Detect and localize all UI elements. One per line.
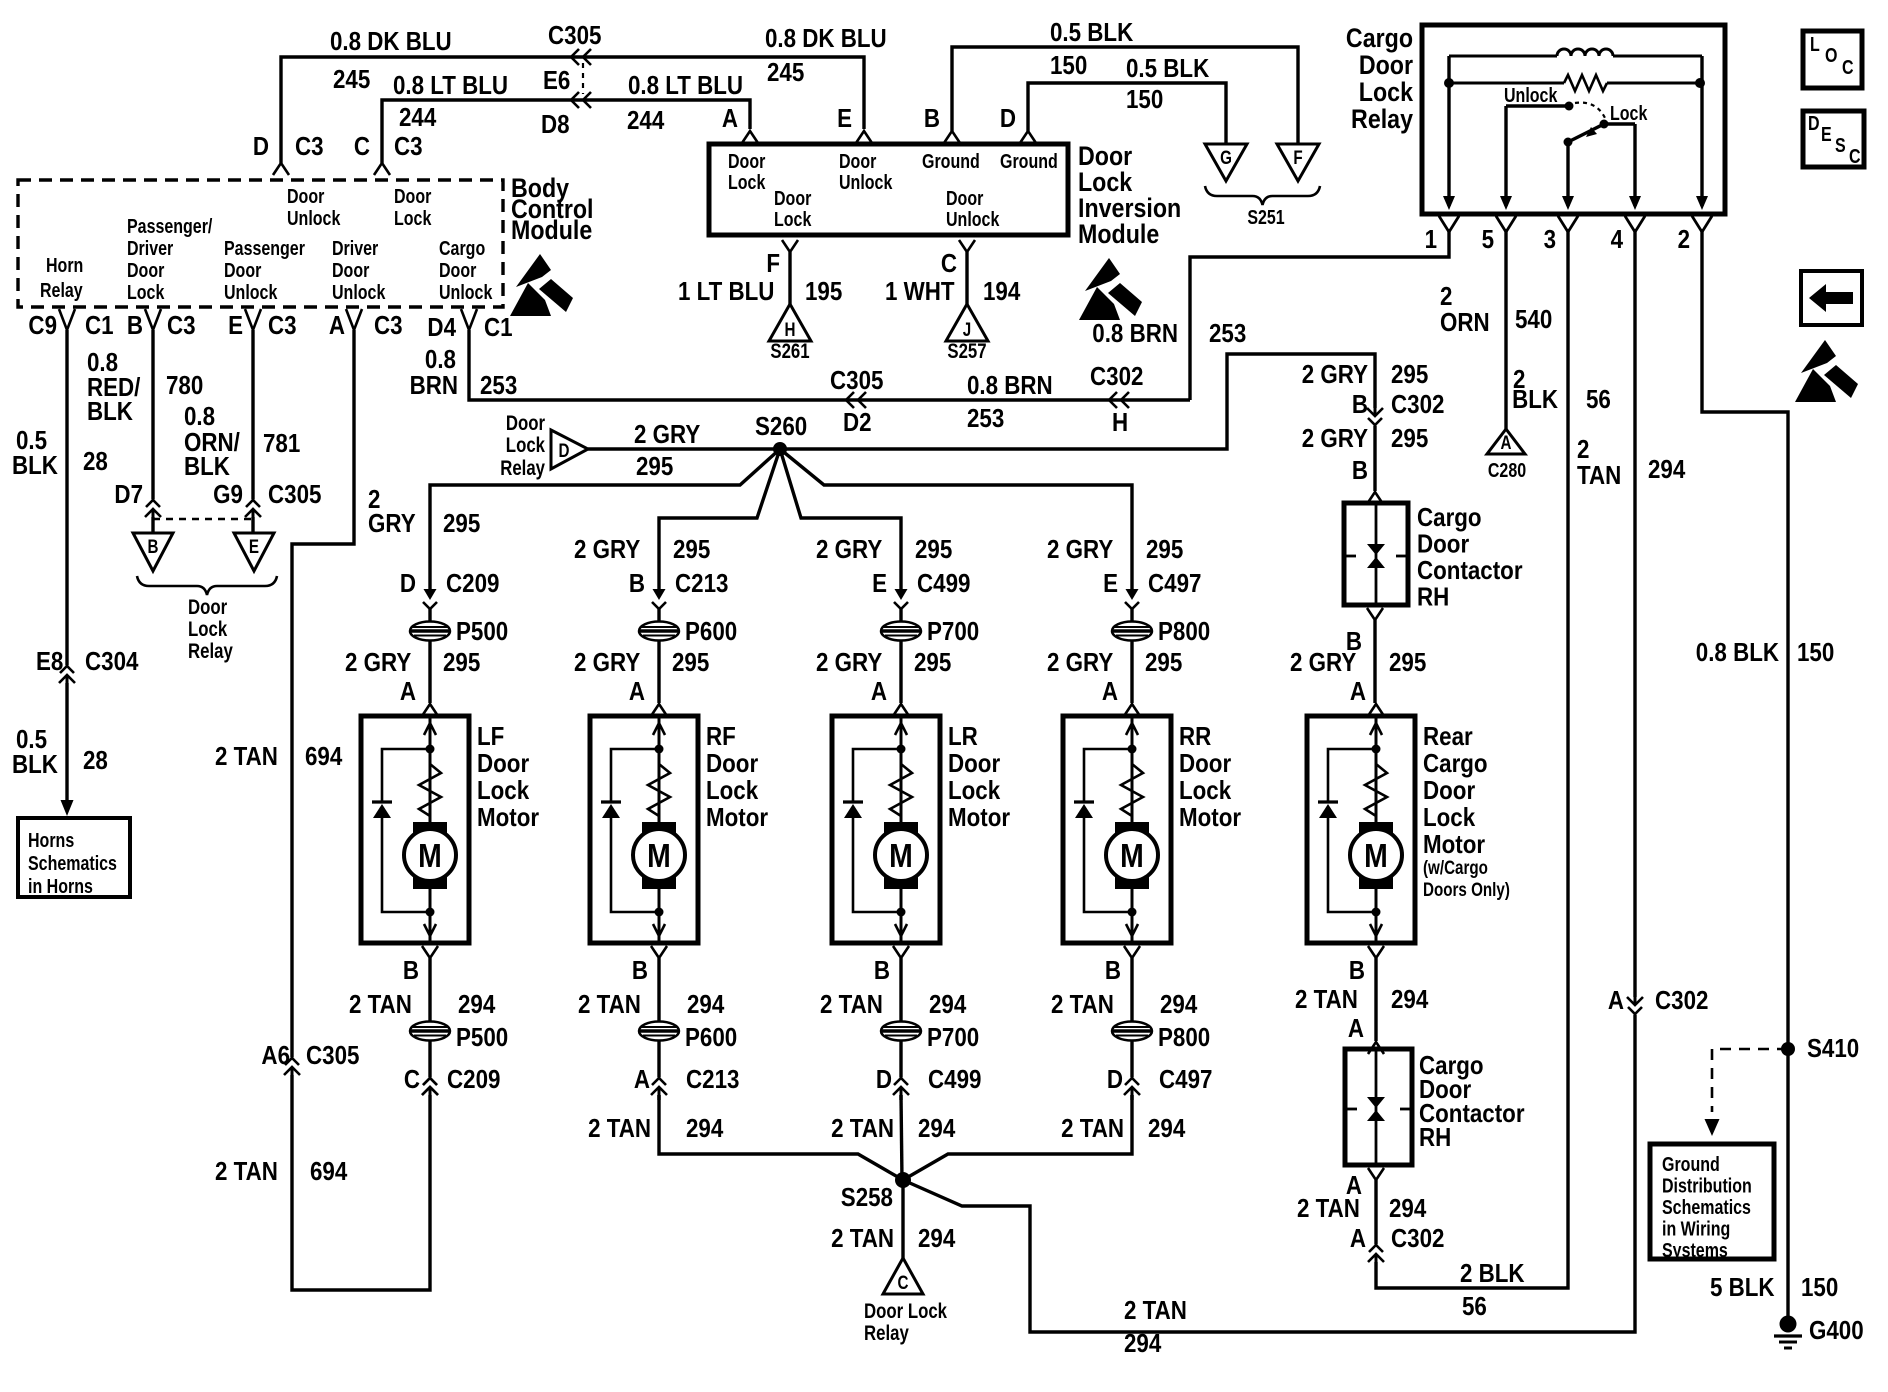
svg-text:Door: Door [477, 749, 530, 778]
svg-text:294: 294 [1648, 455, 1686, 484]
svg-text:295: 295 [1146, 535, 1183, 564]
svg-text:D: D [1000, 104, 1016, 133]
svg-text:E: E [872, 569, 887, 598]
svg-text:C302: C302 [1391, 390, 1444, 419]
svg-text:Unlock: Unlock [839, 171, 893, 193]
svg-text:2 TAN: 2 TAN [820, 990, 883, 1019]
svg-text:E6: E6 [543, 66, 570, 95]
svg-text:A: A [1350, 1224, 1366, 1253]
svg-text:294: 294 [918, 1114, 956, 1143]
svg-text:2 TAN: 2 TAN [588, 1114, 651, 1143]
svg-text:Ground: Ground [1000, 150, 1058, 172]
svg-text:GRY: GRY [368, 509, 416, 538]
svg-text:2 TAN: 2 TAN [578, 990, 641, 1019]
svg-text:244: 244 [627, 106, 665, 135]
svg-text:294: 294 [686, 1114, 724, 1143]
svg-text:0.8 BRN: 0.8 BRN [967, 371, 1053, 400]
svg-text:195: 195 [805, 277, 842, 306]
svg-text:4: 4 [1611, 225, 1624, 254]
svg-text:1 WHT: 1 WHT [885, 277, 955, 306]
svg-text:S: S [1835, 134, 1846, 156]
svg-text:S410: S410 [1807, 1034, 1859, 1063]
svg-text:BLK: BLK [12, 750, 58, 779]
svg-text:C302: C302 [1391, 1224, 1444, 1253]
svg-text:295: 295 [1391, 360, 1428, 389]
svg-text:Door: Door [287, 185, 324, 207]
svg-text:C213: C213 [686, 1065, 739, 1094]
svg-text:G9: G9 [213, 480, 243, 509]
svg-text:M: M [647, 837, 671, 875]
svg-text:D2: D2 [843, 408, 872, 437]
svg-text:F: F [1293, 146, 1302, 168]
svg-text:B: B [629, 569, 645, 598]
svg-text:781: 781 [263, 429, 300, 458]
svg-text:E: E [249, 535, 259, 557]
svg-text:295: 295 [673, 535, 710, 564]
svg-text:150: 150 [1797, 638, 1834, 667]
svg-text:150: 150 [1050, 51, 1087, 80]
svg-text:2 TAN: 2 TAN [215, 1157, 278, 1186]
svg-text:C497: C497 [1148, 569, 1201, 598]
svg-text:Relay: Relay [40, 279, 83, 301]
svg-text:294: 294 [929, 990, 967, 1019]
svg-text:A: A [1608, 986, 1624, 1015]
svg-text:P600: P600 [685, 1023, 737, 1052]
svg-text:2: 2 [1577, 435, 1589, 464]
svg-text:D: D [1808, 112, 1820, 134]
svg-text:Door: Door [1179, 749, 1232, 778]
svg-text:C302: C302 [1090, 362, 1143, 391]
svg-text:295: 295 [636, 452, 673, 481]
svg-text:Cargo: Cargo [439, 237, 485, 259]
svg-text:E: E [1821, 123, 1832, 145]
svg-text:BLK: BLK [184, 452, 230, 481]
svg-text:H: H [1112, 408, 1128, 437]
svg-text:P500: P500 [456, 617, 508, 646]
svg-text:295: 295 [1145, 648, 1182, 677]
svg-text:D: D [253, 132, 269, 161]
svg-text:C1: C1 [484, 313, 513, 342]
svg-text:Horns: Horns [28, 829, 74, 851]
svg-text:253: 253 [480, 371, 517, 400]
svg-text:28: 28 [83, 746, 108, 775]
svg-text:295: 295 [672, 648, 709, 677]
svg-text:D: D [876, 1065, 892, 1094]
svg-text:C305: C305 [548, 21, 601, 50]
svg-text:Schematics: Schematics [28, 852, 117, 874]
svg-text:0.8 LT BLU: 0.8 LT BLU [628, 71, 743, 100]
svg-text:Passenger: Passenger [224, 237, 305, 259]
svg-text:294: 294 [1160, 990, 1198, 1019]
svg-text:A: A [871, 677, 887, 706]
svg-text:C: C [941, 249, 957, 278]
svg-text:2 TAN: 2 TAN [1297, 1194, 1360, 1223]
svg-text:2 GRY: 2 GRY [1302, 360, 1368, 389]
svg-text:245: 245 [333, 65, 370, 94]
svg-text:Unlock: Unlock [287, 207, 341, 229]
svg-text:Relay: Relay [188, 640, 233, 663]
svg-text:2 TAN: 2 TAN [1061, 1114, 1124, 1143]
svg-text:295: 295 [1391, 424, 1428, 453]
svg-text:253: 253 [967, 404, 1004, 433]
svg-text:P800: P800 [1158, 617, 1210, 646]
svg-text:Lock: Lock [1423, 803, 1476, 832]
svg-text:C305: C305 [306, 1041, 359, 1070]
svg-text:S258: S258 [841, 1183, 893, 1212]
svg-text:294: 294 [1124, 1329, 1162, 1358]
svg-text:C: C [898, 1271, 909, 1293]
svg-text:P700: P700 [927, 1023, 979, 1052]
svg-text:Motor: Motor [1179, 803, 1242, 832]
svg-text:Unlock: Unlock [1504, 84, 1558, 106]
svg-text:Lock: Lock [706, 776, 759, 805]
svg-text:A: A [1501, 431, 1512, 453]
svg-text:BLK: BLK [12, 451, 58, 480]
svg-text:2 TAN: 2 TAN [831, 1114, 894, 1143]
svg-text:Systems: Systems [1662, 1239, 1728, 1261]
svg-text:M: M [889, 837, 913, 875]
svg-text:2 GRY: 2 GRY [1047, 535, 1113, 564]
svg-text:C209: C209 [447, 1065, 500, 1094]
svg-text:A: A [1348, 1014, 1364, 1043]
svg-text:RF: RF [706, 722, 736, 751]
svg-text:M: M [418, 837, 442, 875]
svg-text:Relay: Relay [1351, 104, 1413, 134]
svg-text:S257: S257 [947, 340, 986, 363]
svg-text:2 GRY: 2 GRY [634, 420, 700, 449]
svg-text:Lock: Lock [774, 208, 812, 230]
svg-text:Door: Door [728, 150, 765, 172]
svg-text:Lock: Lock [188, 618, 228, 641]
svg-text:B: B [148, 535, 159, 557]
svg-text:Unlock: Unlock [946, 208, 1000, 230]
svg-text:B: B [1352, 390, 1368, 419]
svg-text:1 LT BLU: 1 LT BLU [678, 277, 774, 306]
svg-text:in Horns: in Horns [28, 875, 93, 897]
svg-text:C280: C280 [1488, 459, 1526, 481]
svg-text:E8: E8 [36, 647, 63, 676]
svg-text:Door: Door [839, 150, 876, 172]
svg-text:Module: Module [511, 215, 592, 245]
svg-text:Horn: Horn [46, 254, 83, 276]
svg-text:Lock: Lock [728, 171, 766, 193]
svg-text:2 GRY: 2 GRY [574, 535, 640, 564]
svg-text:in Wiring: in Wiring [1662, 1218, 1730, 1240]
svg-text:Door: Door [188, 596, 228, 619]
svg-text:C499: C499 [917, 569, 970, 598]
svg-text:2: 2 [1678, 225, 1690, 254]
svg-text:C213: C213 [675, 569, 728, 598]
svg-text:B: B [1105, 956, 1121, 985]
svg-text:253: 253 [1209, 319, 1246, 348]
svg-text:194: 194 [983, 277, 1021, 306]
svg-text:C9: C9 [28, 311, 57, 340]
svg-text:0.8: 0.8 [184, 402, 215, 431]
svg-text:0.8: 0.8 [425, 345, 456, 374]
svg-text:Motor: Motor [477, 803, 540, 832]
svg-text:Passenger/: Passenger/ [127, 215, 212, 237]
svg-text:Door: Door [1359, 50, 1413, 80]
svg-text:C497: C497 [1159, 1065, 1212, 1094]
svg-text:2 TAN: 2 TAN [349, 990, 412, 1019]
svg-text:694: 694 [305, 742, 343, 771]
svg-text:Door: Door [1423, 776, 1476, 805]
svg-text:2 GRY: 2 GRY [816, 535, 882, 564]
svg-text:A: A [1350, 677, 1366, 706]
svg-text:Distribution: Distribution [1662, 1175, 1752, 1197]
svg-text:2 TAN: 2 TAN [1124, 1296, 1187, 1325]
svg-text:P800: P800 [1158, 1023, 1210, 1052]
svg-text:Relay: Relay [500, 457, 545, 480]
svg-text:294: 294 [687, 990, 725, 1019]
svg-text:C: C [1849, 145, 1861, 167]
svg-text:C: C [354, 132, 370, 161]
svg-text:Lock: Lock [127, 281, 165, 303]
svg-text:Door: Door [439, 259, 476, 281]
svg-text:TAN: TAN [1577, 461, 1621, 490]
svg-text:G: G [1220, 146, 1232, 168]
svg-text:D: D [1107, 1065, 1123, 1094]
svg-text:Lock: Lock [477, 776, 530, 805]
svg-text:294: 294 [1389, 1194, 1427, 1223]
svg-text:2 TAN: 2 TAN [215, 742, 278, 771]
svg-text:Unlock: Unlock [439, 281, 493, 303]
svg-text:C209: C209 [446, 569, 499, 598]
svg-text:28: 28 [83, 447, 108, 476]
svg-text:E: E [1103, 569, 1118, 598]
svg-text:B: B [1349, 956, 1365, 985]
svg-text:C305: C305 [830, 366, 883, 395]
svg-text:RH: RH [1419, 1123, 1451, 1152]
svg-text:O: O [1825, 44, 1837, 66]
svg-text:C3: C3 [394, 132, 423, 161]
svg-text:LR: LR [948, 722, 978, 751]
svg-text:Motor: Motor [1423, 830, 1486, 859]
svg-text:295: 295 [1389, 648, 1426, 677]
svg-text:2 TAN: 2 TAN [1295, 985, 1358, 1014]
svg-text:694: 694 [310, 1157, 348, 1186]
svg-text:Door: Door [332, 259, 369, 281]
svg-text:Door: Door [948, 749, 1001, 778]
svg-text:0.8 BRN: 0.8 BRN [1092, 319, 1178, 348]
svg-text:Lock: Lock [506, 434, 546, 457]
svg-text:J: J [963, 318, 971, 340]
svg-text:2 BLK: 2 BLK [1460, 1259, 1525, 1288]
svg-text:2 GRY: 2 GRY [1290, 648, 1356, 677]
svg-text:A: A [329, 311, 345, 340]
svg-text:B: B [1352, 456, 1368, 485]
svg-text:RH: RH [1417, 583, 1449, 612]
svg-text:Module: Module [1078, 219, 1159, 249]
svg-text:E: E [837, 104, 852, 133]
svg-text:D8: D8 [541, 110, 570, 139]
svg-text:P500: P500 [456, 1023, 508, 1052]
svg-text:Unlock: Unlock [224, 281, 278, 303]
svg-text:D: D [559, 439, 570, 461]
svg-text:P700: P700 [927, 617, 979, 646]
svg-text:A6: A6 [261, 1041, 290, 1070]
svg-text:C1: C1 [85, 311, 114, 340]
svg-text:3: 3 [1544, 225, 1556, 254]
svg-text:Cargo: Cargo [1346, 23, 1413, 53]
svg-text:BLK: BLK [1512, 385, 1558, 414]
svg-text:LF: LF [477, 722, 504, 751]
svg-text:2 GRY: 2 GRY [574, 648, 640, 677]
svg-text:B: B [127, 311, 143, 340]
svg-text:295: 295 [443, 509, 480, 538]
svg-text:Door: Door [774, 187, 811, 209]
svg-text:Relay: Relay [864, 1322, 909, 1345]
svg-text:Lock: Lock [1610, 102, 1648, 124]
svg-text:L: L [1810, 33, 1820, 55]
svg-text:A: A [634, 1065, 650, 1094]
svg-text:Ground: Ground [1662, 1153, 1720, 1175]
svg-text:294: 294 [918, 1224, 956, 1253]
svg-text:Doors Only): Doors Only) [1423, 878, 1510, 900]
svg-text:C3: C3 [167, 311, 196, 340]
svg-text:H: H [785, 318, 796, 340]
svg-text:BLK: BLK [87, 397, 133, 426]
svg-text:294: 294 [458, 990, 496, 1019]
svg-text:Motor: Motor [706, 803, 769, 832]
svg-text:5: 5 [1482, 225, 1494, 254]
svg-text:Cargo: Cargo [1423, 749, 1488, 778]
svg-text:ORN: ORN [1440, 308, 1490, 337]
svg-text:295: 295 [443, 648, 480, 677]
svg-text:56: 56 [1586, 385, 1611, 414]
svg-text:P600: P600 [685, 617, 737, 646]
svg-text:Lock: Lock [948, 776, 1001, 805]
svg-text:RR: RR [1179, 722, 1211, 751]
svg-text:0.8 LT BLU: 0.8 LT BLU [393, 71, 508, 100]
svg-text:Door: Door [1417, 530, 1470, 559]
svg-text:0.8 DK BLU: 0.8 DK BLU [330, 27, 452, 56]
svg-text:Door Lock: Door Lock [864, 1300, 947, 1323]
svg-text:Door: Door [506, 412, 546, 435]
svg-text:BRN: BRN [410, 371, 458, 400]
svg-text:A: A [1102, 677, 1118, 706]
svg-text:Door: Door [224, 259, 261, 281]
svg-text:M: M [1364, 837, 1388, 875]
svg-text:Ground: Ground [922, 150, 980, 172]
svg-text:C305: C305 [268, 480, 321, 509]
svg-text:294: 294 [1148, 1114, 1186, 1143]
svg-text:Lock: Lock [394, 207, 432, 229]
svg-text:295: 295 [914, 648, 951, 677]
svg-text:Unlock: Unlock [332, 281, 386, 303]
svg-text:G400: G400 [1809, 1316, 1864, 1345]
svg-text:S251: S251 [1247, 206, 1284, 228]
svg-text:294: 294 [1391, 985, 1429, 1014]
svg-text:F: F [766, 249, 780, 278]
svg-text:A: A [400, 677, 416, 706]
svg-text:2 GRY: 2 GRY [816, 648, 882, 677]
svg-text:C3: C3 [268, 311, 297, 340]
svg-text:2 GRY: 2 GRY [345, 648, 411, 677]
svg-text:Door: Door [946, 187, 983, 209]
svg-text:2 TAN: 2 TAN [1051, 990, 1114, 1019]
svg-text:0.8 DK BLU: 0.8 DK BLU [765, 24, 887, 53]
svg-text:244: 244 [399, 103, 437, 132]
svg-text:S261: S261 [770, 340, 810, 363]
svg-text:245: 245 [767, 58, 804, 87]
svg-text:B: B [874, 956, 890, 985]
svg-text:0.5 BLK: 0.5 BLK [1050, 18, 1134, 47]
svg-text:2: 2 [1440, 282, 1452, 311]
svg-text:0.5 BLK: 0.5 BLK [1126, 54, 1210, 83]
svg-text:2 TAN: 2 TAN [831, 1224, 894, 1253]
svg-text:Schematics: Schematics [1662, 1196, 1751, 1218]
svg-text:Door: Door [706, 749, 759, 778]
svg-text:C3: C3 [374, 311, 403, 340]
svg-text:Contactor: Contactor [1417, 556, 1523, 585]
svg-text:S260: S260 [755, 412, 807, 441]
svg-text:M: M [1120, 837, 1144, 875]
svg-text:5 BLK: 5 BLK [1710, 1273, 1775, 1302]
svg-text:2 GRY: 2 GRY [1302, 424, 1368, 453]
svg-text:C302: C302 [1655, 986, 1708, 1015]
svg-text:E: E [228, 311, 243, 340]
svg-text:Driver: Driver [127, 237, 173, 259]
svg-text:Cargo: Cargo [1417, 503, 1482, 532]
svg-text:2 GRY: 2 GRY [1047, 648, 1113, 677]
svg-text:C: C [1842, 56, 1854, 78]
svg-text:Driver: Driver [332, 237, 378, 259]
svg-text:C499: C499 [928, 1065, 981, 1094]
svg-text:1: 1 [1425, 225, 1437, 254]
svg-text:Door: Door [127, 259, 164, 281]
svg-text:B: B [403, 956, 419, 985]
svg-text:(w/Cargo: (w/Cargo [1423, 856, 1488, 878]
svg-text:780: 780 [166, 371, 203, 400]
svg-text:A: A [629, 677, 645, 706]
svg-text:B: B [924, 104, 940, 133]
svg-text:B: B [632, 956, 648, 985]
svg-text:C304: C304 [85, 647, 139, 676]
svg-text:Lock: Lock [1359, 77, 1414, 107]
svg-text:295: 295 [915, 535, 952, 564]
svg-text:540: 540 [1515, 305, 1552, 334]
svg-text:Door: Door [394, 185, 431, 207]
svg-text:D: D [400, 569, 416, 598]
svg-text:C: C [404, 1065, 420, 1094]
svg-text:Lock: Lock [1179, 776, 1232, 805]
svg-text:56: 56 [1462, 1292, 1487, 1321]
svg-text:A: A [722, 104, 738, 133]
svg-text:D4: D4 [427, 313, 456, 342]
svg-text:Rear: Rear [1423, 722, 1473, 751]
svg-text:0.8 BLK: 0.8 BLK [1696, 638, 1780, 667]
svg-text:Motor: Motor [948, 803, 1011, 832]
svg-text:150: 150 [1126, 85, 1163, 114]
svg-text:150: 150 [1801, 1273, 1838, 1302]
svg-text:D7: D7 [114, 480, 143, 509]
svg-text:C3: C3 [295, 132, 324, 161]
